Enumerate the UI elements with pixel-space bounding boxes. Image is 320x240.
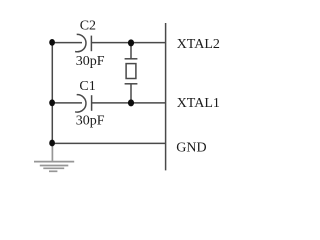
svg-text:30pF: 30pF [76,54,105,69]
svg-text:C2: C2 [80,19,96,34]
svg-text:C1: C1 [79,79,95,94]
svg-text:30pF: 30pF [76,114,105,129]
svg-text:XTAL2: XTAL2 [177,37,220,52]
svg-text:GND: GND [176,141,206,156]
svg-text:XTAL1: XTAL1 [177,96,220,111]
